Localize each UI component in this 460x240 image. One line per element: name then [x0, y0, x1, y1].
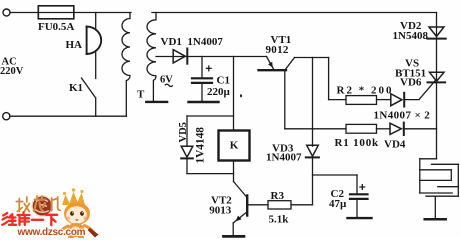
svg-text:T: T — [137, 88, 145, 100]
svg-text:HA: HA — [66, 39, 83, 51]
svg-text:1V4148: 1V4148 — [195, 127, 207, 164]
svg-text:1N4007: 1N4007 — [266, 151, 302, 163]
svg-text:5.1k: 5.1k — [269, 214, 290, 226]
svg-text:VD4: VD4 — [384, 139, 406, 151]
svg-text:K1: K1 — [69, 82, 83, 94]
svg-text:9013: 9013 — [209, 204, 232, 216]
svg-text:FU0.5A: FU0.5A — [38, 21, 74, 33]
svg-text:VD1 1N4007: VD1 1N4007 — [161, 36, 224, 48]
svg-text:C1: C1 — [217, 75, 230, 87]
svg-text:220µ: 220µ — [207, 86, 231, 98]
svg-text:9012: 9012 — [266, 44, 289, 56]
svg-text:K: K — [230, 139, 239, 151]
svg-text:www.dzsc.com: www.dzsc.com — [17, 227, 86, 238]
svg-text:220V: 220V — [0, 66, 24, 77]
svg-text:R3: R3 — [271, 190, 285, 202]
svg-text:1N4007 × 2: 1N4007 × 2 — [374, 110, 431, 122]
svg-text:R2 * 200: R2 * 200 — [337, 85, 394, 97]
svg-text:1N5408: 1N5408 — [393, 30, 429, 42]
svg-text:47µ: 47µ — [329, 198, 347, 210]
svg-text:R1 100k: R1 100k — [335, 137, 379, 149]
svg-text:VD5: VD5 — [178, 122, 189, 142]
svg-text:BT151: BT151 — [395, 67, 426, 79]
